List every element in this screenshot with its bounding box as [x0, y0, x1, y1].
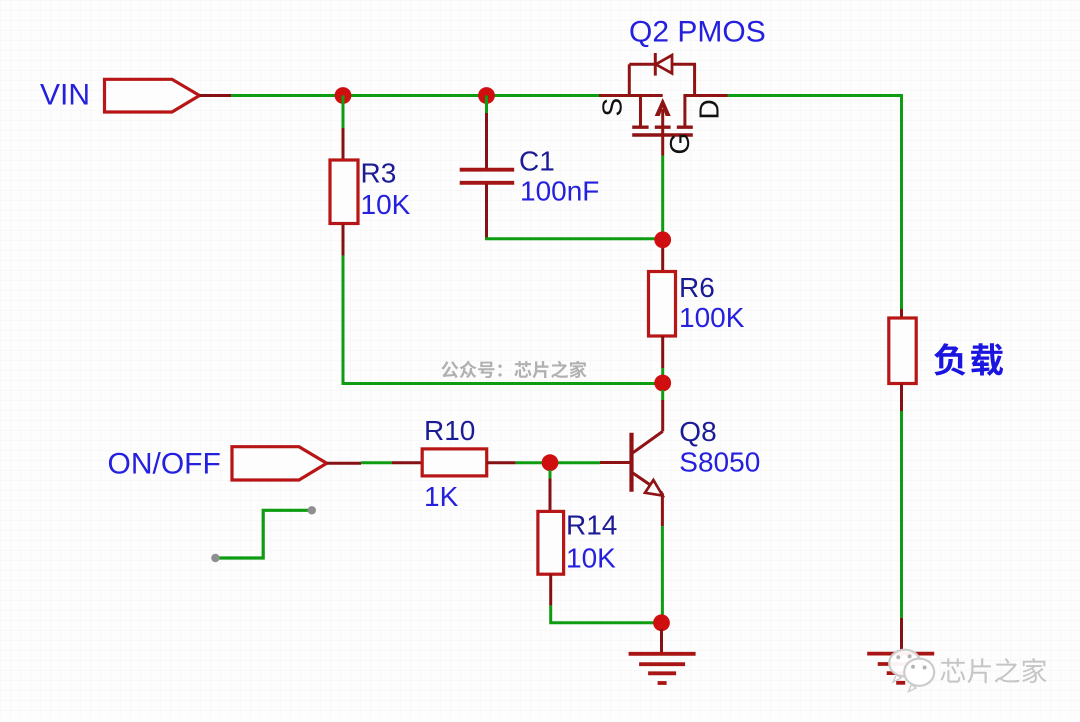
wire into load — [900, 309, 903, 318]
svg-text:ON/OFF: ON/OFF — [108, 447, 221, 480]
logo 芯片之家 — [889, 650, 1046, 692]
svg-text:10K: 10K — [566, 543, 616, 574]
resistor R3 — [330, 128, 358, 256]
wire C1 top — [485, 96, 488, 114]
wire dangling segment — [215, 510, 311, 558]
svg-text:Q2 PMOS: Q2 PMOS — [629, 16, 766, 49]
node open end right — [308, 506, 316, 514]
label 负载 — [934, 343, 965, 375]
svg-text:R3: R3 — [361, 158, 397, 189]
junction node B — [654, 375, 671, 392]
svg-text:Q8: Q8 — [679, 416, 716, 447]
svg-text:R6: R6 — [679, 272, 715, 303]
wire ON/OFF to R10 — [361, 461, 392, 464]
wire R6 bottom to node B — [661, 368, 664, 376]
transistor Q2 (PMOS) — [599, 53, 728, 156]
wire R14 bottom to gnd node — [551, 606, 662, 623]
svg-text:10K: 10K — [361, 189, 411, 220]
svg-text:VIN: VIN — [40, 79, 90, 112]
junction at gate node — [654, 231, 671, 248]
svg-text:100K: 100K — [679, 302, 745, 333]
ground (load) — [867, 654, 934, 683]
svg-text:G: G — [664, 133, 695, 155]
svg-text:D: D — [694, 99, 725, 119]
transistor Q8 (NPN S8050) — [600, 400, 663, 526]
junction base node — [542, 454, 559, 471]
svg-text:R10: R10 — [424, 415, 475, 446]
resistor R6 — [649, 248, 676, 368]
svg-text:R14: R14 — [566, 510, 617, 541]
resistor R14 — [538, 479, 564, 606]
wire Q2 drain to load — [728, 96, 902, 310]
wire VIN node to R3 — [342, 96, 345, 129]
resistor R10 — [392, 449, 516, 476]
svg-text:S: S — [597, 98, 628, 117]
junction gnd node — [653, 614, 670, 631]
port VIN — [105, 79, 232, 112]
svg-text:100nF: 100nF — [520, 176, 599, 207]
svg-text:S8050: S8050 — [679, 447, 760, 478]
capacitor C1 — [460, 113, 515, 238]
wire Q2 gate down — [661, 156, 664, 241]
svg-text:1K: 1K — [424, 481, 459, 512]
wire Q8 emitter to gnd node — [661, 526, 664, 616]
wire R10 to base node — [516, 461, 600, 464]
wire VIN to Q2 source — [231, 94, 599, 97]
wire R3 bottom to node B — [343, 256, 663, 384]
junction at R3 top — [335, 87, 352, 104]
port ON/OFF — [232, 447, 361, 480]
wire base node to R14 — [549, 470, 552, 479]
node open end left — [211, 554, 219, 562]
watermark 公众号：芯片之家 — [441, 361, 586, 379]
svg-text:C1: C1 — [519, 146, 555, 177]
junction at C1 top — [478, 87, 495, 104]
wire node B to Q8 collector — [661, 390, 664, 400]
ground (Q8 emitter / R14) — [629, 629, 696, 683]
wire C1 bottom to gate node — [487, 238, 664, 239]
resistor load — [889, 318, 916, 411]
wire load to ground — [900, 411, 903, 618]
